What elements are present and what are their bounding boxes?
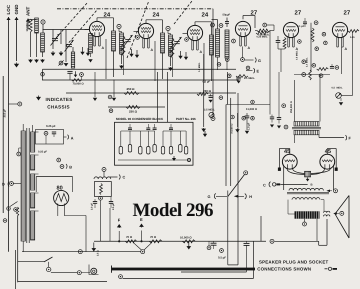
- terminal C plug mid: [263, 182, 308, 188]
- svg-text:11,000 Ω: 11,000 Ω: [246, 108, 258, 111]
- wire V5 bias bottom: [278, 49, 285, 72]
- divider cap right label: [112, 203, 115, 210]
- left vertical to bottom: [16, 216, 18, 289]
- power transformer primary winding: [21, 131, 25, 241]
- svg-text:0.25 μF: 0.25 μF: [46, 124, 56, 128]
- svg-text:B: B: [69, 166, 72, 170]
- svg-text:PART No. 296: PART No. 296: [176, 117, 196, 121]
- pilot lamp bracket: [3, 219, 98, 275]
- wire padder top: [72, 47, 74, 52]
- wire tube V6 down to transformer: [319, 75, 321, 122]
- svg-text:C: C: [123, 176, 126, 180]
- svg-text:1.0 μF: 1.0 μF: [248, 122, 251, 130]
- grid cap circle of V3: [166, 26, 170, 30]
- capacitor 50 mmf: [225, 18, 229, 28]
- power transformer secondary segment 3: [31, 174, 35, 190]
- circle under V4: [241, 58, 245, 62]
- svg-text:230 Ω: 230 Ω: [203, 89, 212, 93]
- volume pot circle: [209, 112, 214, 117]
- secondary tap 3: [35, 173, 39, 175]
- switch pivot circle: [244, 171, 248, 175]
- vertical wire x=311: [310, 23, 312, 72]
- terminal H switch: [238, 194, 252, 200]
- svg-text:G: G: [208, 195, 211, 199]
- coupling resistor V5-V6: [311, 28, 314, 42]
- circle B2: [60, 165, 64, 169]
- bottom bus y=241.3: [94, 240, 266, 242]
- vertical wire x=157.5: [157, 72, 159, 122]
- block ground arrow: [172, 156, 176, 161]
- divider cap right: [109, 197, 113, 209]
- trimmer circle: [58, 60, 63, 65]
- primary circle top: [17, 148, 21, 156]
- tube V9 label 45: [325, 149, 331, 155]
- condenser C5 in block: [153, 131, 156, 152]
- svg-text:70,000 Ω: 70,000 Ω: [73, 83, 85, 86]
- chassis arrow at 203.7: [201, 128, 206, 132]
- plug circle bottom: [51, 271, 90, 275]
- svg-text:0.5 MEG.: 0.5 MEG.: [198, 62, 201, 72]
- vertical wire x=270: [269, 31, 271, 115]
- wire screen resistor down V2: [172, 58, 174, 77]
- bus wire y=69.3: [41, 69, 236, 80]
- terminal E right of grid leak: [254, 68, 260, 73]
- screen resistor label V1: [120, 45, 123, 55]
- risers to bottom bus: [101, 201, 111, 242]
- divider box: [95, 182, 112, 197]
- wire secondary to voice coil: [321, 200, 324, 211]
- resistor h lower zone: [317, 68, 329, 71]
- svg-text:E: E: [140, 217, 143, 222]
- transformer top leads: [23, 124, 32, 132]
- tube V3 type 24 envelope: [187, 23, 202, 40]
- grid resistor left of V5: [256, 32, 268, 35]
- caps under V5 area b: [277, 115, 281, 129]
- tube V8 type 45 envelope: [282, 154, 297, 169]
- svg-text:MODEL 96 CONDENSER BLOCK: MODEL 96 CONDENSER BLOCK: [116, 117, 164, 121]
- bus wire y=107: [108, 106, 165, 108]
- chassis arrow at 205: [203, 131, 207, 137]
- screen resistor of V2: [171, 38, 174, 58]
- wiper arm lines: [133, 242, 152, 250]
- rectifier feed lines: [36, 177, 72, 193]
- power transformer secondary segment 1: [31, 132, 35, 152]
- label 0.25 mf top: [46, 124, 56, 128]
- stub to circle: [9, 103, 18, 105]
- terminal LOC lead wire: [6, 17, 10, 252]
- ground arrow under C1b: [59, 51, 64, 56]
- tube V5 type 27 envelope: [283, 22, 298, 37]
- wire grid cap to coil V2: [119, 29, 122, 33]
- svg-text:0.1 μF: 0.1 μF: [297, 25, 305, 28]
- terminal G switch: [208, 193, 228, 199]
- tube V5 cathode legs: [288, 37, 299, 51]
- IF transformer top circles: [211, 23, 223, 27]
- label 0.5 mf: [203, 80, 211, 83]
- rot label 70000 b: [235, 132, 236, 134]
- svg-text:27: 27: [295, 10, 302, 17]
- tube V4 type 27 envelope: [235, 21, 250, 36]
- circle at left stub: [18, 102, 22, 106]
- label 0.25 mf second: [38, 151, 47, 154]
- vertical wire x=167.5: [167, 72, 169, 122]
- svg-text:2.5 μF: 2.5 μF: [112, 203, 115, 210]
- svg-text:CHASSIS: CHASSIS: [47, 104, 70, 109]
- grid circle V5: [263, 23, 267, 27]
- tube V7 type 80 envelope: [54, 190, 69, 205]
- vertical wire x=227.5 long: [227, 72, 229, 105]
- ground arrow on GND lead: [14, 63, 19, 68]
- wire y=74.5 right: [294, 74, 330, 76]
- svg-text:LOC: LOC: [6, 4, 11, 14]
- svg-text:MEG.: MEG.: [337, 87, 343, 90]
- svg-text:C: C: [263, 184, 266, 188]
- terminal F bottom: [117, 218, 122, 243]
- tube V1 label 24: [104, 11, 111, 18]
- power transformer core: [27, 128, 29, 243]
- label 0.5 mf bottom: [218, 256, 226, 260]
- tube V8 label 45: [284, 149, 290, 155]
- block internal cap marks: [128, 128, 173, 130]
- svg-text:B: B: [311, 183, 313, 187]
- switch blade bottom: [44, 257, 53, 262]
- output transformer primary: [289, 188, 323, 190]
- V7 legs: [58, 204, 65, 217]
- dashed gang link to C2: [66, 10, 97, 46]
- cable circle: [119, 275, 123, 279]
- IF transformer mid circle: [232, 39, 236, 43]
- condenser block box: [115, 122, 194, 165]
- wire V4 plate top: [243, 16, 257, 31]
- resistor 10000 bottom: [183, 240, 196, 243]
- IF transformer primary coil: [216, 29, 220, 57]
- wire C2 lead: [65, 30, 67, 63]
- circle mid right b: [284, 125, 288, 129]
- svg-text:SPEAKER PLUG AND SOCKET: SPEAKER PLUG AND SOCKET: [259, 260, 328, 265]
- svg-text:70 Ω: 70 Ω: [150, 235, 157, 239]
- interstage transformer primary: [294, 122, 319, 127]
- condenser C4 in block: [147, 131, 150, 154]
- wire under plate coil V1: [113, 51, 115, 77]
- rot label meg b: [306, 57, 309, 67]
- vertical wire x=294.5: [294, 80, 296, 122]
- block risers: [130, 124, 171, 128]
- condenser C7 in block: [169, 131, 172, 154]
- junction circle at V3 grid: [185, 38, 189, 42]
- tube V6 label 27: [344, 10, 351, 17]
- hum balance resistor block: [305, 171, 311, 177]
- chassis arrow 237: [235, 113, 239, 133]
- wire ANT to L1: [28, 19, 37, 21]
- title Model 296: [133, 200, 213, 221]
- caps under V5 area: [270, 115, 274, 128]
- cap lower zone: [330, 64, 334, 68]
- power transformer secondary segment 5: [31, 211, 35, 240]
- chassis symbol in note: [36, 96, 41, 101]
- tube V3 label 24: [202, 11, 209, 18]
- chassis arrow left of chain: [91, 243, 96, 252]
- wire L2 bottom to ground: [40, 52, 45, 63]
- cap .015 mf label: [3, 76, 6, 213]
- wire R1 to ground: [30, 32, 32, 57]
- plate resistor label V4: [258, 34, 270, 37]
- screen arrow a V2: [135, 50, 139, 58]
- vertical wire x=279: [278, 72, 280, 115]
- label 70 ohm b: [150, 235, 157, 239]
- svg-text:G: G: [258, 59, 261, 63]
- secondary tap 2: [35, 154, 39, 156]
- V9 grid terminal block: [335, 168, 338, 171]
- svg-text:250,000 Ω: 250,000 Ω: [290, 101, 293, 113]
- wires at A box: [45, 135, 47, 144]
- resistor 70 ohm a: [125, 240, 136, 243]
- wire grid coil V3 to ground: [170, 56, 172, 66]
- speaker plug on bus: [266, 219, 327, 245]
- ground arrow under grid coil V2: [119, 65, 124, 69]
- cap under E line: [236, 76, 241, 84]
- resistor v right top: [309, 70, 312, 80]
- svg-text:250 Ω: 250 Ω: [127, 87, 136, 91]
- svg-text:10,000 Ω: 10,000 Ω: [180, 235, 192, 239]
- bypass cap on bus: [67, 71, 72, 80]
- label 70,000 ohm: [72, 71, 85, 85]
- circle under chain: [207, 241, 211, 249]
- variable tuning capacitor at V2: [124, 35, 133, 47]
- svg-text:A: A: [71, 136, 74, 140]
- svg-text:24: 24: [202, 11, 209, 18]
- switch wire bottom: [18, 261, 44, 263]
- tube V2 label 24: [153, 11, 160, 18]
- label 250 ohm: [127, 87, 136, 91]
- label 0.1 mf top: [297, 18, 307, 28]
- junction circle 230: [209, 94, 223, 103]
- vertical wire x=230: [226, 98, 231, 186]
- dashed gang link to C1: [56, 2, 88, 38]
- chassis arrow at 95: [93, 72, 97, 101]
- junction circle at 110: [108, 95, 112, 99]
- tube V2 type 24 envelope: [138, 21, 153, 38]
- svg-text:24: 24: [104, 11, 111, 18]
- terminal box A: [36, 130, 64, 145]
- V8 grid top wire: [279, 149, 289, 168]
- tube V5 label 27: [295, 10, 302, 17]
- antenna coil L1: [35, 18, 39, 33]
- junction circle on bus: [80, 73, 84, 80]
- tube V9 type 45 envelope: [320, 154, 335, 169]
- variable capacitor C2: [65, 40, 74, 52]
- tone pot ground: [339, 98, 343, 106]
- label 230 ohm: [203, 89, 212, 93]
- block internal top rail: [121, 130, 186, 132]
- svg-text:2.0 μF: 2.0 μF: [90, 203, 93, 210]
- junction circles V5V6 zone: [298, 32, 328, 50]
- plate resistor of V4: [257, 29, 270, 32]
- tube V1 cathode legs: [94, 36, 105, 50]
- output transformer core: [287, 192, 329, 194]
- screen arrow b V1: [80, 47, 84, 55]
- svg-text:CONNECTIONS SHOWN: CONNECTIONS SHOWN: [257, 266, 311, 271]
- svg-text:70 Ω: 70 Ω: [126, 235, 133, 239]
- junction circles mid: [231, 100, 255, 120]
- wire under plate coil V2: [162, 53, 164, 79]
- tube V3 cathode legs: [192, 40, 203, 54]
- terminal ANT lead wire: [26, 19, 30, 30]
- note CHASSIS: [47, 104, 70, 109]
- circle mid right: [282, 104, 286, 108]
- terminal A arrow: [64, 135, 74, 141]
- cathode resistor V5: [283, 38, 286, 50]
- V9 grid top wire: [327, 149, 336, 168]
- voice coil: [324, 211, 330, 216]
- variable tuning capacitor at V3: [173, 37, 182, 49]
- interstage transformer secondary: [294, 130, 319, 135]
- wire screen resistor down V1: [123, 56, 125, 75]
- line circuit breaker: [7, 202, 18, 212]
- grid coil of V2: [120, 33, 124, 54]
- plate coil of V2: [161, 33, 165, 53]
- grid cap circle of V2: [117, 24, 121, 28]
- node bus wire y=29.5: [43, 29, 90, 31]
- transformer bottom leads: [22, 241, 24, 252]
- plate lead of V3: [195, 22, 212, 35]
- screen feed vertical V2: [134, 32, 156, 82]
- terminal E bottom: [139, 217, 144, 242]
- choke terminal circle: [102, 168, 106, 177]
- grid resistor label V5: [257, 36, 269, 39]
- bottom long bus: [18, 281, 107, 283]
- chassis arrow under 10000: [186, 242, 191, 250]
- wire L1 to ground: [36, 33, 38, 57]
- svg-text:8.1 MEG.: 8.1 MEG.: [244, 77, 255, 80]
- chassis arrow at 114: [112, 80, 116, 102]
- tube V6 type 27 envelope: [332, 22, 347, 37]
- wires around field coil: [288, 200, 295, 214]
- label 11,000 ohm: [246, 108, 258, 111]
- terminal GND label: [14, 4, 19, 15]
- switch arrow head: [234, 195, 239, 198]
- junction circle on 251.7: [78, 250, 82, 254]
- svg-text:2.5 Ω: 2.5 Ω: [97, 250, 100, 256]
- switch blade: [228, 175, 245, 197]
- divider cap left: [93, 199, 97, 208]
- coupling wire V4 to V5: [267, 25, 274, 31]
- svg-text:0.25 MEG.: 0.25 MEG.: [257, 36, 269, 39]
- note speaker line1: [259, 260, 328, 265]
- terminal F right: [346, 135, 352, 140]
- V8 grid terminal block: [278, 168, 281, 171]
- svg-text:H: H: [249, 195, 252, 199]
- circle B1: [57, 158, 61, 162]
- coupling circle top: [314, 21, 318, 25]
- label under grid stopper: [350, 36, 355, 39]
- rotated label 70,000: [231, 124, 234, 134]
- variable capacitor C1: [51, 34, 60, 46]
- vertical wire x=213 to P: [212, 9, 214, 116]
- block circle: [187, 158, 190, 161]
- ground arrow below C2: [64, 63, 69, 66]
- tube V7 label 80: [57, 186, 63, 192]
- wire to cable circle: [123, 241, 254, 278]
- plate coil of V1: [112, 31, 116, 51]
- filter choke coil: [94, 177, 111, 179]
- padder coil L3: [71, 52, 74, 68]
- divider resistor: [100, 184, 103, 195]
- svg-text:0.5 μF: 0.5 μF: [218, 256, 226, 260]
- svg-text:50μμF: 50μμF: [223, 14, 231, 17]
- V9 filament curve wires: [311, 169, 330, 175]
- tube V1 type 24 envelope: [89, 19, 104, 36]
- rot label at chain: [97, 250, 100, 256]
- label 2.5 meg: [198, 62, 215, 111]
- svg-text:0.25 μF: 0.25 μF: [38, 151, 47, 154]
- cathode cap V5: [276, 36, 281, 49]
- interstage transformer core: [292, 127, 321, 129]
- tube V6 cathode legs: [337, 37, 348, 51]
- vertical wire x=203.7: [203, 54, 205, 127]
- condenser C3 in block: [139, 131, 142, 154]
- wire tuning cap C1 leads: [53, 30, 61, 50]
- svg-text:10,000 Ω: 10,000 Ω: [26, 20, 29, 32]
- cap 0.5 bottom a: [211, 241, 217, 249]
- wire grid coil V1 down: [88, 53, 92, 63]
- grid coil of V3: [169, 35, 173, 56]
- svg-text:GND: GND: [14, 4, 19, 15]
- rot label meg a: [296, 50, 299, 60]
- screen arrow a V1: [86, 48, 90, 56]
- voice coil arrow circle: [333, 211, 344, 215]
- label 250 ohm second: [129, 109, 138, 113]
- dashed gang link to C4: [174, 1, 192, 24]
- vertical wire x=238 long: [228, 93, 238, 265]
- wire V6 plate down: [341, 32, 352, 96]
- condenser C1 in block: [119, 131, 122, 154]
- note INDICATES: [46, 97, 73, 102]
- screen resistor of V1: [122, 36, 125, 56]
- grid cap terminal P: [41, 20, 45, 24]
- capacitor 50 mmf label: [223, 14, 231, 17]
- divider circle: [99, 196, 103, 200]
- circles lower zone: [302, 60, 339, 69]
- wire P to L2: [42, 24, 44, 33]
- ground arrow below L1: [34, 59, 39, 63]
- screen feed vertical V3: [183, 34, 205, 84]
- interstage to V8 grid wire: [279, 135, 294, 143]
- grid stopper resistor right of V6: [348, 30, 359, 33]
- svg-text:.015 μF: .015 μF: [4, 109, 7, 118]
- tube V2 cathode legs: [143, 38, 154, 52]
- svg-text:0.5 MEG.: 0.5 MEG.: [296, 50, 299, 60]
- note speaker line2: [257, 266, 337, 271]
- secondary tap 5: [35, 210, 39, 212]
- speaker field coil: [295, 211, 320, 218]
- screen arrow b V3: [178, 51, 182, 59]
- screen arrow b V2: [129, 49, 133, 57]
- ground arrow under C1: [51, 51, 56, 56]
- IF transformer secondary coil: [225, 30, 229, 58]
- secondary tap 1: [35, 131, 39, 133]
- label 250000 rotated: [290, 101, 293, 113]
- condenser C6 in block: [161, 131, 164, 154]
- vertical cap 1.0 mf: [245, 113, 250, 130]
- bus wire y=80: [42, 79, 239, 81]
- plate lead of V2: [146, 20, 163, 33]
- plate leads 45s: [283, 164, 335, 191]
- terminal C socket: [110, 175, 126, 180]
- resistor 250 ohm second: [126, 106, 140, 109]
- screen arrow a V3: [184, 52, 188, 60]
- primary arrow circle: [326, 189, 337, 193]
- svg-text:ANT: ANT: [26, 7, 31, 16]
